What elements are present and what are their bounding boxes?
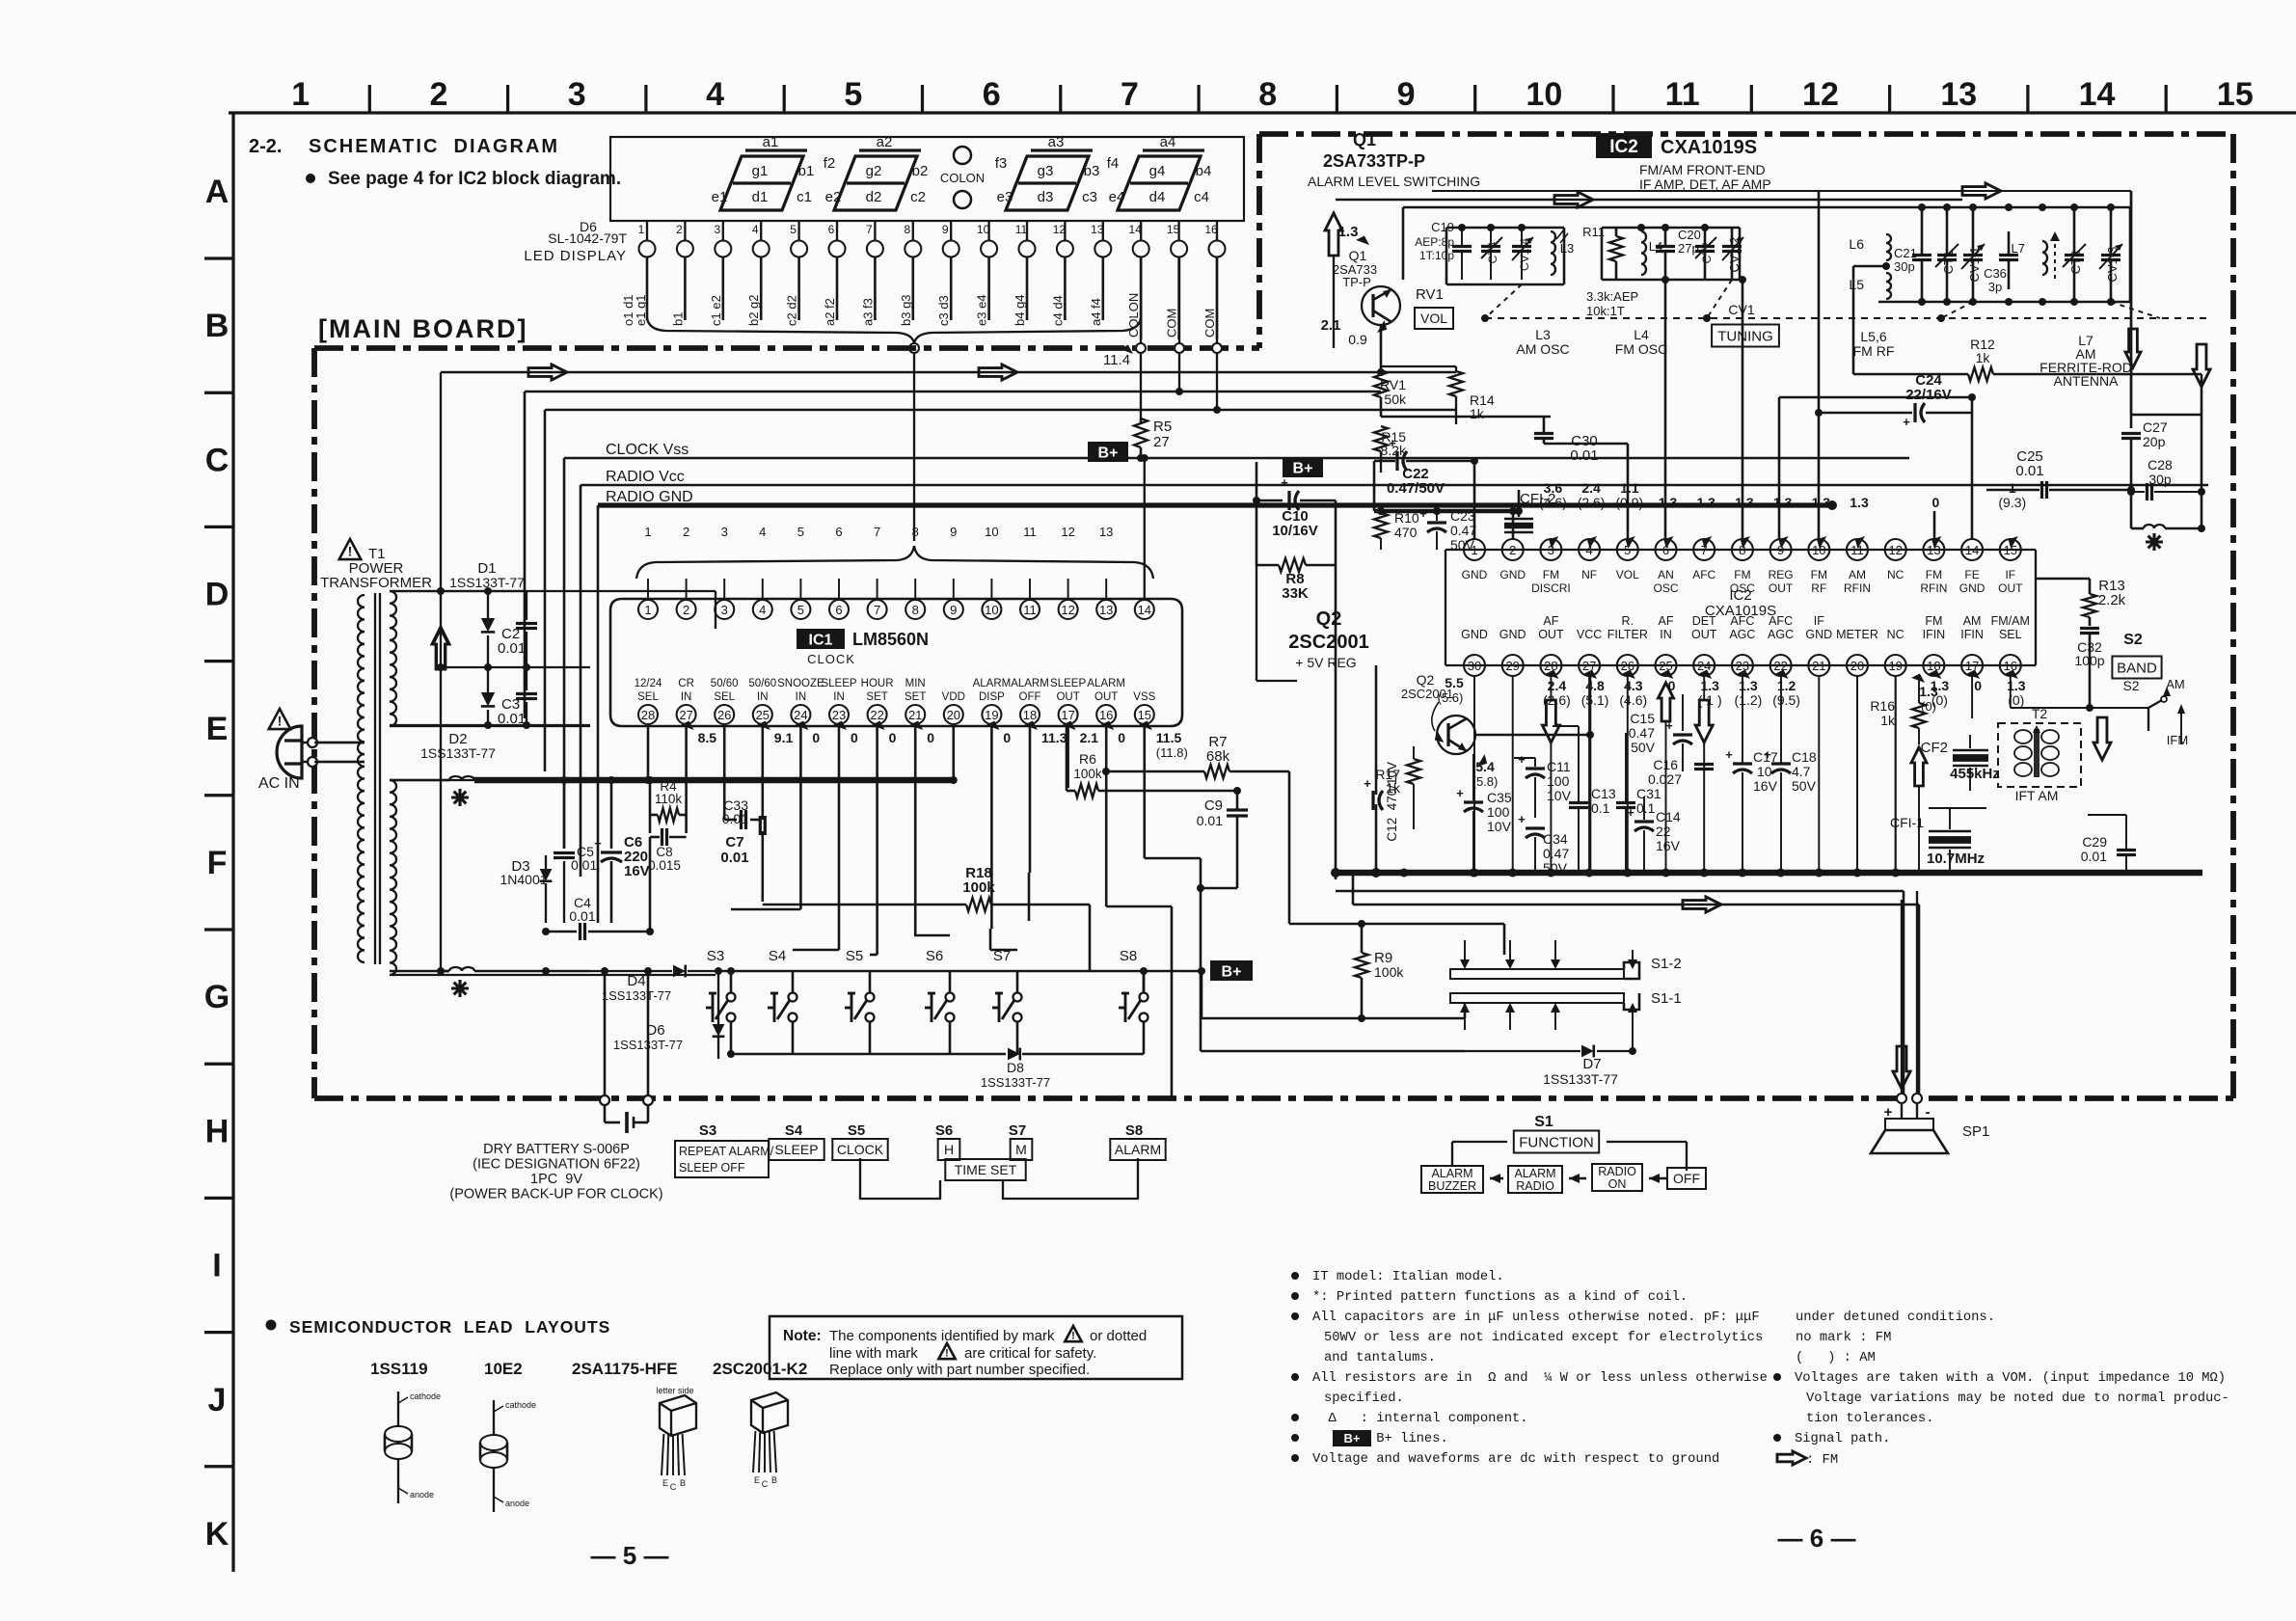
svg-text:: FM: : FM	[1806, 1453, 1838, 1468]
svg-text:— 6 —: — 6 —	[1778, 1524, 1856, 1553]
arrow down pin24	[1695, 676, 1713, 873]
svg-text:27: 27	[1582, 659, 1596, 673]
svg-text:12: 12	[1061, 603, 1074, 617]
svg-text:16V: 16V	[1656, 838, 1681, 853]
svg-text:28: 28	[641, 708, 655, 722]
svg-text:IC1: IC1	[809, 632, 833, 648]
svg-text:(5.1): (5.1)	[1581, 692, 1609, 708]
svg-text:c3 d3: c3 d3	[936, 295, 951, 326]
svg-text:are critical for safety.: are critical for safety.	[964, 1345, 1096, 1362]
svg-text:1k: 1k	[1470, 406, 1485, 421]
svg-text:2: 2	[1509, 543, 1516, 557]
svg-text:C28: C28	[2147, 457, 2173, 473]
transformer T2	[1998, 706, 2081, 803]
wire function left	[1452, 1142, 1507, 1166]
LED display pin circles 1-16	[638, 221, 1226, 257]
svg-text:5: 5	[797, 603, 804, 617]
svg-text:d4: d4	[1149, 189, 1166, 205]
svg-text:7: 7	[1121, 76, 1139, 113]
svg-text:L3: L3	[1560, 241, 1574, 256]
main board dash-dot border	[314, 134, 2233, 1098]
svg-text:2.4: 2.4	[1581, 480, 1601, 496]
svg-text:VCC: VCC	[1577, 628, 1602, 641]
svg-text:B+: B+	[1222, 963, 1242, 980]
capacitor C34 electrolytic	[1518, 812, 1569, 876]
big up arrow left	[432, 627, 449, 669]
svg-text:+: +	[1665, 718, 1673, 733]
capacitor C6 electrolytic	[594, 780, 650, 923]
coil L3	[1551, 230, 1574, 275]
notes left column	[1291, 1269, 1768, 1467]
switch bar S1-2	[1450, 940, 1682, 979]
svg-text:+: +	[1389, 436, 1396, 450]
svg-text:a4: a4	[1160, 134, 1176, 150]
IC1 outline	[610, 599, 1182, 726]
svg-text:L5,6: L5,6	[1860, 329, 1886, 344]
svg-text:11.4: 11.4	[1103, 352, 1130, 368]
rail CLOCK Vss	[564, 454, 1909, 849]
wire pin17 T2	[1972, 676, 2011, 718]
svg-text:AFC: AFC	[1769, 614, 1793, 628]
svg-text:18: 18	[1927, 659, 1940, 673]
svg-text:C: C	[205, 442, 230, 478]
svg-text:RFIN: RFIN	[1844, 581, 1871, 595]
varicap CV1-2	[1722, 228, 1743, 280]
svg-text:— 5 —: — 5 —	[591, 1541, 669, 1570]
svg-text:5: 5	[844, 76, 862, 113]
LED display pin wires and labels	[621, 257, 1217, 339]
battery symbol	[600, 967, 653, 1133]
wire vdd down	[950, 726, 958, 784]
svg-text:11: 11	[1023, 603, 1037, 617]
svg-text:RADIO: RADIO	[1516, 1179, 1554, 1193]
svg-text:b2: b2	[912, 163, 929, 179]
svg-text:BAND: BAND	[2117, 660, 2157, 676]
diode D7	[1465, 1013, 1636, 1087]
svg-text:C8: C8	[656, 845, 672, 859]
label q2 voltage	[1472, 754, 1499, 789]
svg-text:e2: e2	[825, 189, 842, 205]
label 2SA1175-HFE	[572, 1360, 678, 1378]
svg-text:tion tolerances.: tion tolerances.	[1806, 1411, 1933, 1426]
svg-text:IFIN: IFIN	[1960, 628, 1984, 641]
svg-text:CXA1019S: CXA1019S	[1661, 137, 1757, 158]
svg-text:17: 17	[1965, 659, 1979, 673]
svg-text:(5.8): (5.8)	[1472, 774, 1499, 789]
svg-text:FM/AM: FM/AM	[1991, 614, 2030, 628]
svg-text:B: B	[680, 1478, 686, 1488]
wire fm/am sel right	[1919, 743, 2102, 745]
svg-text:AFC: AFC	[1692, 568, 1715, 581]
svg-text:OFF: OFF	[1019, 691, 1041, 703]
svg-text:g3: g3	[1038, 163, 1054, 179]
svg-text:2SA1175-HFE: 2SA1175-HFE	[572, 1360, 678, 1378]
capacitor C30	[1381, 417, 1628, 539]
svg-text:1: 1	[2009, 480, 2016, 496]
svg-text:0.47: 0.47	[1450, 523, 1476, 538]
warning triangle AC	[269, 709, 291, 729]
label RADIO Vcc	[606, 469, 685, 485]
svg-text:1PC 9V: 1PC 9V	[530, 1172, 582, 1187]
svg-text:under detuned conditions.: under detuned conditions.	[1796, 1310, 1995, 1325]
svg-text:D7: D7	[1582, 1056, 1601, 1072]
svg-text:10: 10	[985, 525, 998, 539]
svg-text:AGC: AGC	[1729, 628, 1755, 641]
svg-text:+: +	[1627, 805, 1634, 820]
svg-text:OSC: OSC	[1730, 581, 1755, 595]
svg-text:0: 0	[1974, 678, 1982, 693]
svg-text:0.47/50V: 0.47/50V	[1387, 480, 1445, 497]
svg-text:C15: C15	[1630, 711, 1655, 726]
svg-text:S4: S4	[769, 948, 786, 964]
svg-text:100k: 100k	[1374, 964, 1404, 980]
svg-text:b2 g2: b2 g2	[746, 294, 761, 326]
label Q2 near	[1401, 672, 1453, 743]
svg-text:0.1: 0.1	[1591, 800, 1610, 816]
capacitor C17 electrolytic	[1725, 676, 1778, 873]
svg-text:f3: f3	[995, 155, 1008, 172]
svg-text:a4 f4: a4 f4	[1089, 298, 1103, 326]
svg-text:12: 12	[1061, 525, 1074, 539]
svg-text:H: H	[944, 1142, 954, 1157]
svg-text:All capacitors are in μF unles: All capacitors are in μF unless otherwis…	[1312, 1310, 1760, 1325]
svg-text:AN: AN	[1658, 568, 1674, 581]
arrow fn2	[1569, 1174, 1586, 1183]
svg-text:50V: 50V	[1792, 778, 1817, 794]
IC2 top pin names	[1462, 568, 2023, 595]
svg-text:C27: C27	[2143, 419, 2168, 435]
svg-text:OUT: OUT	[1691, 628, 1717, 641]
svg-text:anode: anode	[410, 1490, 434, 1499]
svg-text:L6: L6	[1849, 236, 1864, 252]
svg-text:RADIO Vcc: RADIO Vcc	[606, 469, 685, 485]
svg-text:3: 3	[714, 223, 720, 236]
IC2 top voltages	[1539, 480, 2026, 549]
svg-text:14: 14	[2079, 76, 2116, 113]
IC1 bottom pin names	[635, 678, 1156, 703]
wire D1 C2 rail1	[390, 587, 590, 595]
svg-text:19: 19	[1888, 659, 1902, 673]
brace display pins to bus	[647, 318, 1141, 343]
svg-text:The components identified by m: The components identified by mark	[829, 1328, 1055, 1344]
arrow fn1	[1490, 1174, 1503, 1183]
svg-text:27p: 27p	[1678, 241, 1699, 256]
resistor R5	[1134, 419, 1172, 461]
capacitor C9	[1197, 791, 1248, 892]
svg-text:18: 18	[1023, 708, 1037, 722]
svg-text:VSS: VSS	[1133, 691, 1155, 703]
label L4 FM OSC	[1615, 327, 1667, 357]
svg-text:g2: g2	[866, 163, 882, 179]
svg-text:C35: C35	[1487, 790, 1512, 805]
svg-text:50WV or less are not indicated: 50WV or less are not indicated except fo…	[1324, 1330, 1763, 1345]
svg-text:FM: FM	[1925, 614, 1942, 628]
label box S5	[832, 1122, 887, 1160]
svg-text:+: +	[1518, 752, 1526, 767]
svg-text:11: 11	[1023, 525, 1037, 539]
svg-text:Replace only with part number: Replace only with part number specified.	[829, 1362, 1090, 1378]
svg-text:C12 470/10V: C12 470/10V	[1385, 762, 1399, 842]
svg-text:(POWER BACK-UP FOR CLOCK): (POWER BACK-UP FOR CLOCK)	[449, 1187, 662, 1202]
svg-text:line with mark: line with mark	[829, 1345, 918, 1362]
svg-text:(4.6): (4.6)	[1619, 692, 1647, 708]
svg-text:20p: 20p	[2143, 434, 2166, 449]
resistor R11	[1582, 225, 1623, 280]
switch S4	[768, 948, 797, 1022]
svg-text:COM: COM	[1165, 309, 1179, 338]
svg-text:9: 9	[950, 525, 957, 539]
IC2 outline	[1445, 550, 2036, 665]
svg-text:RF: RF	[1811, 581, 1826, 595]
wire staircase hour	[870, 726, 878, 971]
label CV1 TUNING	[1712, 302, 1779, 347]
svg-text:24: 24	[794, 708, 807, 722]
svg-text:FM: FM	[1734, 568, 1750, 581]
label S1	[1534, 1114, 1553, 1130]
svg-text:IT model: Italian model.: IT model: Italian model.	[1312, 1269, 1504, 1284]
filter CFI-2	[1504, 490, 1556, 539]
svg-text:ALARM: ALARM	[1514, 1167, 1555, 1180]
capacitor C24	[1779, 372, 1976, 539]
svg-text:AC IN: AC IN	[258, 775, 300, 792]
resistor R6	[1067, 726, 1241, 797]
drawing 1SS119 diode	[385, 1391, 441, 1503]
svg-text:(0): (0)	[1921, 699, 1936, 714]
B+ box switches	[1210, 960, 1253, 981]
wire secondary lower top	[390, 779, 590, 781]
svg-text:+: +	[1456, 786, 1464, 800]
svg-text:22: 22	[1773, 659, 1787, 673]
subtitle see page 4	[306, 169, 621, 189]
wire q1 up arrow	[1325, 213, 1342, 348]
svg-text:C9: C9	[1204, 797, 1223, 814]
svg-text:1: 1	[1471, 543, 1477, 557]
wire af out lines	[1336, 874, 1919, 1094]
svg-text:CR: CR	[678, 678, 694, 689]
svg-text:c2: c2	[910, 189, 926, 205]
svg-text:26: 26	[1621, 659, 1634, 673]
capacitor C2	[498, 591, 537, 667]
svg-text:specified.: specified.	[1324, 1391, 1404, 1406]
varicap CV1-4	[1512, 228, 1533, 280]
svg-text:22: 22	[1656, 824, 1671, 839]
svg-text:3.6: 3.6	[1544, 480, 1563, 496]
svg-text:+: +	[1903, 415, 1910, 429]
svg-text:7: 7	[874, 603, 880, 617]
box OFF	[1667, 1168, 1706, 1189]
svg-text:0: 0	[889, 730, 897, 745]
resistor R16	[1870, 676, 1926, 744]
svg-text:TP-P: TP-P	[1342, 275, 1371, 289]
svg-text:g4: g4	[1149, 163, 1166, 179]
wire AC to primary	[314, 743, 365, 762]
svg-text:FILTER: FILTER	[1607, 628, 1648, 641]
capacitor C16	[1648, 743, 1714, 873]
svg-text:S1-1: S1-1	[1651, 990, 1682, 1007]
svg-text:S2: S2	[2123, 632, 2143, 648]
IC1 label	[797, 629, 929, 666]
label box S8	[1110, 1122, 1165, 1160]
svg-text:CT3: CT3	[2068, 251, 2083, 275]
svg-text:b1: b1	[670, 312, 685, 326]
svg-text:GND: GND	[1499, 628, 1526, 641]
svg-text:0.01: 0.01	[2081, 849, 2107, 864]
LED display digit 4	[1107, 134, 1212, 210]
capacitor C28	[2127, 457, 2205, 500]
IC1 top pin circles	[638, 600, 1154, 619]
svg-text:8: 8	[904, 223, 910, 236]
label 1SS119	[370, 1360, 428, 1378]
capacitor C14 electrolytic	[1627, 797, 1681, 873]
label box S4	[769, 1122, 824, 1160]
svg-text:C: C	[670, 1482, 677, 1492]
svg-text:cathode: cathode	[505, 1400, 536, 1410]
svg-text:R6: R6	[1079, 751, 1096, 767]
svg-text:[MAIN BOARD]: [MAIN BOARD]	[318, 314, 527, 343]
trimmer CT3	[2063, 208, 2086, 302]
svg-text:1k: 1k	[1880, 713, 1896, 728]
svg-text:DISCRI: DISCRI	[1531, 581, 1571, 595]
svg-text:C29: C29	[2082, 834, 2107, 850]
svg-text:C14: C14	[1656, 809, 1681, 824]
svg-text:0.01: 0.01	[569, 908, 595, 924]
wire staircase alarm out	[1106, 726, 1172, 1098]
svg-text:0.01: 0.01	[2015, 463, 2043, 479]
svg-text:10/16V: 10/16V	[1272, 523, 1318, 539]
wire pin28 down	[644, 726, 652, 784]
svg-text:H: H	[205, 1113, 230, 1149]
svg-text:S2: S2	[2122, 678, 2139, 693]
svg-text:IN: IN	[833, 691, 845, 703]
svg-text:OUT: OUT	[1998, 581, 2023, 595]
svg-text:AM OSC: AM OSC	[1516, 341, 1569, 357]
svg-text:15: 15	[2217, 76, 2254, 113]
switch S3	[706, 948, 736, 1022]
svg-text:3: 3	[721, 525, 728, 539]
svg-text:33K: 33K	[1282, 585, 1309, 602]
svg-text:NC: NC	[1887, 628, 1904, 641]
dashed CV1 gang line	[1481, 280, 2208, 322]
label dry battery	[449, 1142, 662, 1202]
svg-text:13: 13	[1940, 76, 1977, 113]
svg-text:(IEC DESIGNATION 6F22): (IEC DESIGNATION 6F22)	[473, 1157, 640, 1173]
svg-text:1SS133T-77: 1SS133T-77	[602, 988, 671, 1003]
capacitor C7	[720, 726, 762, 866]
svg-text:IF: IF	[1814, 614, 1824, 628]
svg-text:OUT: OUT	[1538, 628, 1564, 641]
svg-text:2SA733TP-P: 2SA733TP-P	[1323, 151, 1425, 171]
svg-text:SET: SET	[905, 691, 926, 703]
svg-text:S3: S3	[699, 1122, 716, 1139]
svg-text:16: 16	[2004, 659, 2017, 673]
svg-text:FM: FM	[1543, 568, 1559, 581]
drawing 2SC2001 transistor	[751, 1392, 788, 1489]
diode D3	[540, 829, 564, 923]
svg-text:AF: AF	[1659, 614, 1674, 628]
label D6 LED display	[524, 219, 627, 264]
switch bar S1-1	[1450, 990, 1682, 1030]
svg-text:22: 22	[870, 708, 883, 722]
svg-text:d3: d3	[1038, 189, 1054, 205]
svg-text:16V: 16V	[1753, 778, 1778, 794]
wire L6 left	[1853, 265, 1886, 268]
svg-text:SLEEP: SLEEP	[821, 678, 856, 689]
svg-text:!: !	[348, 544, 353, 559]
svg-text:IN: IN	[681, 691, 692, 703]
svg-text:1.1: 1.1	[1620, 480, 1639, 496]
svg-text:AF: AF	[1543, 614, 1558, 628]
svg-text:(9.3): (9.3)	[1998, 495, 2026, 510]
wire rail2	[437, 663, 590, 671]
svg-text:20: 20	[947, 708, 960, 722]
label CLOCK Vss	[606, 442, 689, 458]
capacitor C22 electrolytic	[1374, 436, 1474, 511]
svg-text:ALARM: ALARM	[973, 678, 1012, 689]
label RV1 VOL	[1415, 286, 1453, 329]
coil L6	[1849, 234, 1891, 260]
svg-text:16V: 16V	[624, 863, 650, 879]
LED display digit 1	[712, 134, 815, 210]
svg-text:a3 f3: a3 f3	[860, 298, 875, 326]
svg-text:FM: FM	[1811, 568, 1827, 581]
svg-text:+: +	[1281, 475, 1288, 490]
svg-text:RFIN: RFIN	[1920, 581, 1947, 595]
wire staircase snooze	[731, 726, 800, 971]
ground heavy line	[1331, 868, 2202, 878]
svg-text:20: 20	[1850, 659, 1864, 673]
svg-text:ALARM: ALARM	[1087, 678, 1125, 689]
svg-text:CT1: CT1	[1941, 251, 1956, 275]
wire vss down	[1145, 726, 1201, 858]
wire s1 feeds	[1289, 924, 1504, 955]
transformer T1 coils	[358, 591, 396, 975]
svg-text:METER: METER	[1836, 628, 1878, 641]
svg-text:VOL: VOL	[1616, 568, 1639, 581]
svg-text:ALARM: ALARM	[1011, 678, 1049, 689]
capacitor C8	[648, 828, 686, 873]
transistor Q1	[1362, 286, 1400, 325]
svg-text:8: 8	[1258, 76, 1277, 113]
svg-text:f4: f4	[1107, 155, 1120, 172]
svg-text:27: 27	[679, 708, 692, 722]
wire groupB rails	[1602, 224, 1740, 280]
svg-text:a2: a2	[877, 134, 893, 150]
svg-text:B+: B+	[1344, 1431, 1361, 1445]
svg-text:L5: L5	[1849, 277, 1864, 292]
capacitor C20	[1656, 228, 1701, 280]
svg-text:OUT: OUT	[1769, 581, 1794, 595]
svg-text:+: +	[1364, 776, 1371, 791]
notes right column	[1773, 1310, 2229, 1468]
coil L7 dashed arrow	[2012, 231, 2060, 280]
IC2 bottom voltages	[1438, 667, 2026, 708]
svg-text:(2.6): (2.6)	[1578, 495, 1606, 510]
svg-text:3p: 3p	[1988, 280, 2002, 294]
trimmer CT2	[1695, 228, 1716, 280]
svg-text:(4.6): (4.6)	[1539, 495, 1567, 510]
svg-text:3: 3	[721, 603, 728, 617]
svg-text:b4 g4: b4 g4	[1013, 294, 1027, 326]
svg-text:d1: d1	[752, 189, 769, 205]
svg-text:15: 15	[1167, 223, 1180, 236]
label voltage pin18	[1911, 671, 1938, 714]
svg-text:S1-2: S1-2	[1651, 956, 1682, 972]
diode D4	[590, 965, 722, 1003]
svg-text:S7: S7	[1009, 1122, 1026, 1139]
svg-text:SEL: SEL	[1999, 628, 2022, 641]
svg-text:A: A	[205, 174, 230, 210]
svg-text:Voltage and waveforms are dc w: Voltage and waveforms are dc with respec…	[1312, 1451, 1719, 1467]
